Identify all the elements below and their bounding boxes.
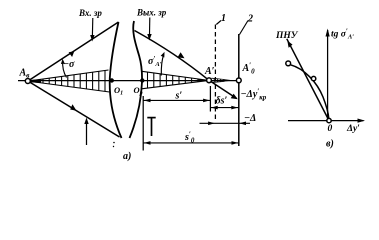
right ray cone (lens to A')	[142, 71, 207, 89]
svg-text:A′: A′	[204, 66, 215, 77]
angle arc sigma'A	[161, 54, 164, 75]
svg-text:−Δ: −Δ	[244, 113, 256, 124]
leader to label 2	[240, 21, 249, 35]
vertical arrow to lower ray	[86, 120, 88, 145]
lens left surface	[110, 22, 122, 138]
arrowhead on upper exit ray	[178, 52, 185, 58]
point A'0	[236, 78, 241, 83]
svg-text:Вых. зр: Вых. зр	[136, 8, 167, 18]
T mark	[147, 117, 155, 119]
dashed plane 1	[214, 25, 216, 120]
ray continuation A' to plane 2	[211, 81, 237, 98]
leader arrow Vkh zr	[91, 18, 93, 36]
point A'	[207, 78, 212, 83]
aberration curve	[291, 65, 329, 119]
svg-text:0: 0	[328, 124, 333, 134]
dimension s'0	[143, 142, 239, 144]
arrowhead on PNU line	[287, 41, 292, 48]
svg-text:в): в)	[326, 139, 334, 150]
small hatched wedge A' to A'0 with arrowhead	[212, 78, 225, 82]
speckles	[113, 142, 115, 144]
svg-text:а): а)	[123, 151, 131, 162]
origin circle	[327, 118, 331, 122]
svg-text:1: 1	[221, 13, 226, 24]
principal point O1 dot	[110, 78, 114, 82]
angle arc -sigma	[63, 61, 67, 78]
svg-text:2: 2	[247, 14, 253, 25]
dimension s'	[143, 99, 210, 101]
svg-text:−σ: −σ	[63, 59, 75, 70]
upper exit ray (curved, lens top to A')	[135, 31, 209, 80]
principal point Op dot	[140, 78, 144, 82]
svg-text:tg σ′A′: tg σ′A′	[331, 28, 354, 41]
svg-text:s′: s′	[175, 91, 183, 102]
dimension witness line below Op	[142, 96, 144, 151]
PNU straight line	[287, 39, 328, 119]
lens right surface	[130, 21, 143, 138]
lower entrance ray	[30, 82, 120, 137]
arrowhead on lower entrance ray	[70, 104, 76, 111]
left cone solid apex	[30, 79, 42, 83]
arrowhead on upper entrance ray	[69, 51, 75, 57]
svg-text:Δy′: Δy′	[346, 124, 360, 134]
svg-text:A′0: A′0	[242, 62, 256, 76]
horizontal axis dy'	[288, 120, 364, 122]
dimension witness line below A'	[209, 86, 211, 112]
left ray cone (hatched beam A_v to lens)	[30, 70, 110, 92]
svg-text:σ′A′: σ′A′	[148, 55, 162, 68]
point on curve end	[286, 61, 291, 66]
upper entrance ray	[30, 22, 119, 80]
right cone solid apex	[199, 79, 207, 82]
svg-text:δs′: δs′	[216, 96, 228, 107]
svg-text:Aв: Aв	[19, 68, 31, 80]
leader to label 1	[216, 21, 221, 25]
point A_v	[25, 79, 30, 84]
optical axis	[18, 80, 239, 82]
svg-text:−Δy′кр: −Δy′кр	[241, 88, 267, 102]
dimension -Delta (outside arrows)	[200, 122, 251, 124]
dimension delta-s'	[211, 107, 238, 109]
point on curve mid	[311, 76, 315, 80]
plane 2 line	[238, 34, 240, 146]
svg-text:ПНУ: ПНУ	[275, 31, 299, 41]
svg-text:O1: O1	[114, 85, 123, 97]
vertical axis tg sigma	[327, 30, 329, 123]
leader arrow Vykh zr	[149, 18, 151, 35]
svg-text:Вх. зр: Вх. зр	[78, 8, 102, 18]
